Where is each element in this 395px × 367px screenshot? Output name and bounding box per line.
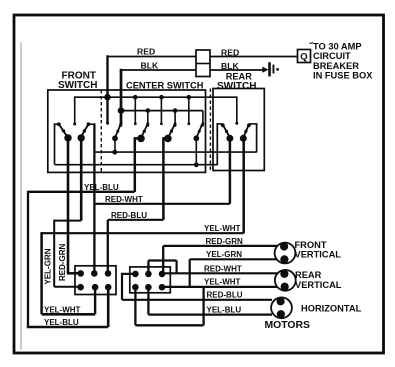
label FRONT SWITCH	[58, 70, 97, 91]
svg-text:YEL-BLU: YEL-BLU	[44, 318, 79, 327]
svg-text:SWITCH: SWITCH	[217, 81, 256, 92]
connector Q circuit breaker	[298, 50, 311, 63]
node bus A tap 2	[159, 95, 164, 100]
contact tip A2	[160, 122, 163, 125]
svg-text:BLK: BLK	[221, 61, 239, 71]
center switch pivot 1	[112, 135, 118, 141]
svg-text:RED-BLU: RED-BLU	[207, 291, 243, 300]
wire YEL-WHT left drop	[40, 232, 43, 314]
contact tip A1	[134, 122, 137, 125]
center switch blade 4	[197, 125, 202, 137]
front switch pivot 1	[64, 134, 71, 141]
wire YEL-GRN into connector	[54, 286, 80, 288]
svg-text:YEL-BLU: YEL-BLU	[84, 183, 119, 192]
wire center pivot 1 drop	[114, 138, 116, 152]
connector block J2	[130, 267, 171, 293]
pin J1-1	[77, 270, 84, 277]
wire rear left contact elbow	[217, 123, 223, 125]
center switch blade 3	[168, 125, 174, 137]
label TO 30 AMP CIRCUIT BREAKER IN FUSE BOX	[313, 42, 373, 81]
svg-text:RED-WHT: RED-WHT	[105, 195, 143, 204]
wire RED-GRN riser	[162, 246, 164, 274]
wire RED-GRN to front motor	[163, 245, 277, 247]
wire bus B (BLK)	[121, 110, 203, 112]
wire stub A3	[188, 97, 190, 124]
wire front left contact drop	[54, 123, 56, 164]
label REAR VERTICAL	[295, 270, 342, 290]
wire center pivot 4 drop	[195, 138, 197, 165]
wire YEL-WHT long run	[42, 232, 244, 234]
center switch blade 1	[115, 125, 120, 137]
rear switch left contact	[221, 123, 225, 127]
svg-text:VERTICAL: VERTICAL	[295, 280, 342, 290]
svg-text:RED-WHT: RED-WHT	[204, 264, 242, 273]
motor M1 front vertical	[275, 242, 296, 263]
wire bus A (RED feed)	[75, 96, 237, 98]
front switch right contact	[87, 122, 91, 126]
center switch pivot 3	[164, 135, 172, 143]
wire center pivot 3 drop	[162, 137, 165, 220]
pin J1-5	[92, 284, 99, 291]
svg-text:YEL-WHT: YEL-WHT	[204, 277, 241, 286]
wire YEL-GRN drop	[53, 220, 55, 287]
node bus A tap 3	[187, 95, 192, 100]
svg-text:SWITCH: SWITCH	[58, 80, 97, 91]
wire rear pivot 2 drop	[242, 138, 245, 233]
wire stub A2	[160, 97, 162, 124]
center switch contact 4	[201, 124, 204, 127]
wire J2 jumper right riser	[176, 261, 178, 274]
wire bus D (ground tie)	[55, 164, 218, 166]
wire BLK ground horizontal	[121, 69, 264, 71]
inner faint border line	[20, 42, 22, 350]
contact tip B3	[202, 122, 205, 125]
wire center pivot 3 elbow	[163, 137, 168, 140]
contact tip front centre	[73, 123, 76, 126]
contact tip rear centre	[235, 122, 238, 125]
wire stub B2	[174, 111, 176, 124]
rear switch pivot 1	[226, 135, 233, 142]
wire RED-BLU to horizontal motor	[122, 299, 272, 301]
center switch pivot 4	[193, 135, 199, 141]
node BLK junction	[118, 107, 125, 114]
wire YEL-BLU bottom run	[27, 326, 108, 329]
wire bus C (contacts tie)	[94, 151, 256, 153]
pin J1-4	[77, 284, 84, 291]
wire J2 jumper left riser	[147, 261, 149, 274]
wire J2 pin4 riser	[202, 287, 204, 325]
contact tip A3	[187, 122, 190, 125]
center switch contact 2	[146, 124, 149, 127]
wire bus A rear drop	[236, 96, 238, 123]
wire YEL-WHT bottom run	[42, 313, 96, 316]
svg-text:TO 30 AMP: TO 30 AMP	[313, 42, 362, 52]
pin J2-3	[159, 271, 166, 278]
wire YEL-WHT to rear motor	[162, 286, 277, 288]
center switch contact 3	[173, 124, 176, 127]
svg-text:MOTORS: MOTORS	[265, 320, 310, 331]
front switch blade 2	[81, 125, 88, 137]
svg-text:YEL-GRN: YEL-GRN	[43, 248, 52, 284]
center switch contact 1	[119, 124, 122, 127]
pin J2-2	[145, 271, 152, 278]
pin J2-1	[132, 271, 139, 278]
wire center pivot 2 drop	[134, 137, 137, 192]
wire RED-BLU riser to connector	[107, 220, 109, 274]
pin J1-3	[105, 270, 112, 277]
svg-text:REAR: REAR	[295, 270, 322, 280]
connector block J1	[75, 266, 116, 295]
wire YEL-BLU riser to connector	[107, 287, 110, 327]
svg-text:VERTICAL: VERTICAL	[295, 249, 342, 259]
connector C1	[196, 50, 210, 77]
wire front right contact drop	[93, 123, 95, 273]
ground	[262, 62, 279, 76]
front switch pivot 2	[78, 134, 85, 141]
wire front left contact elbow	[55, 123, 59, 125]
motor M3 horizontal	[271, 297, 292, 318]
wire RED-WHT to rear motor	[162, 272, 277, 274]
svg-text:CIRCUIT: CIRCUIT	[313, 51, 351, 61]
wire J2 pin4 drop	[134, 287, 136, 325]
pin J2-6	[159, 284, 166, 291]
wire stub B1	[147, 111, 149, 124]
wire YEL-GRN to front motor	[190, 258, 277, 260]
wire RED-BLU upper run	[108, 219, 164, 221]
svg-text:RED-GRN: RED-GRN	[58, 243, 67, 281]
svg-text:RED-BLU: RED-BLU	[111, 211, 147, 220]
wire RED feed horizontal	[108, 56, 298, 58]
motor M2 rear vertical	[275, 270, 296, 291]
pin J2-5	[145, 284, 152, 291]
wire center pivot 2 elbow	[135, 137, 141, 140]
wire rear pivot 1 drop	[229, 138, 232, 204]
rear switch blade 1	[223, 126, 230, 138]
svg-text:YEL-GRN: YEL-GRN	[206, 250, 242, 259]
svg-text:YEL-WHT: YEL-WHT	[204, 224, 241, 233]
dashed separator center/rear	[209, 89, 211, 171]
node pivot1 to bus C	[112, 150, 117, 155]
contact tip RED stub	[106, 122, 109, 125]
wire front pivot 2 drop	[80, 138, 83, 221]
svg-text:IN FUSE BOX: IN FUSE BOX	[313, 71, 373, 81]
wire YEL-WHT riser to connector	[94, 287, 96, 314]
node RED junction	[104, 94, 111, 101]
center switch pivot 2	[137, 135, 145, 143]
wire J2 pin1 drop	[121, 273, 123, 300]
rear switch right contact	[247, 123, 251, 127]
wire rear left contact drop	[216, 123, 218, 165]
svg-text:RED-GRN: RED-GRN	[206, 237, 244, 246]
svg-text:RED: RED	[221, 47, 239, 57]
wire YEL-BLU left drop	[27, 191, 29, 327]
label FRONT VERTICAL	[295, 240, 342, 260]
svg-text:RED: RED	[137, 47, 155, 57]
pin J1-6	[105, 284, 112, 291]
wire YEL-GRN riser	[189, 259, 191, 287]
front switch blade 1	[59, 125, 67, 137]
svg-text:YEL-BLU: YEL-BLU	[207, 305, 242, 314]
contact tip BLK stub	[120, 122, 123, 125]
rear switch box	[213, 89, 264, 171]
svg-text:BREAKER: BREAKER	[313, 61, 359, 71]
rear switch blade 2	[243, 126, 248, 138]
wire rear right contact drop	[256, 123, 258, 152]
svg-text:HORIZONTAL: HORIZONTAL	[301, 303, 362, 313]
wire J2 jumper horizontal	[148, 259, 176, 261]
node bus A tap 1	[133, 95, 138, 100]
wire front right contact elbow	[88, 123, 94, 125]
wire J2 pin4 bottom run	[135, 324, 203, 326]
wire YEL-BLU to horizontal motor	[148, 313, 272, 315]
wire BLK vertical drop	[120, 69, 123, 124]
stray tick mark	[310, 42, 314, 45]
center switch blade 2	[141, 125, 147, 137]
front switch left contact	[57, 122, 61, 126]
wire bus B right drop	[202, 111, 204, 124]
pin J1-2	[91, 270, 98, 277]
svg-text:FRONT: FRONT	[295, 240, 327, 250]
svg-text:Q: Q	[300, 52, 307, 63]
svg-text:YEL-WHT: YEL-WHT	[44, 305, 81, 314]
wire bus A left drop to front switch	[74, 96, 76, 124]
wire J2 pin5 drop	[147, 287, 149, 314]
label REAR SWITCH	[217, 72, 256, 92]
wire RED-GRN elbow into connector	[67, 272, 81, 275]
node bus B tap 2	[173, 108, 178, 113]
dashed separator front/center	[100, 90, 102, 172]
front/center switch box	[48, 90, 206, 172]
wire RED-WHT run	[94, 203, 230, 205]
wire YEL-BLU upper run	[28, 191, 135, 193]
svg-text:CENTER SWITCH: CENTER SWITCH	[126, 81, 204, 91]
contact tip B1	[146, 122, 149, 125]
node pivot4 to bus D	[194, 162, 199, 167]
wire rear right contact elbow	[249, 123, 257, 125]
node bus B tap 1	[146, 108, 151, 113]
wire front pivot 2 jog	[54, 220, 81, 222]
wire RED-GRN vertical (front pivot 1)	[67, 138, 70, 273]
wire J2 pin1 elbow	[122, 273, 135, 275]
pin J2-4	[132, 284, 139, 291]
wire stub A1	[134, 97, 136, 124]
contact tip B2	[174, 122, 177, 125]
rear switch pivot 2	[240, 135, 247, 142]
svg-text:BLK: BLK	[141, 60, 159, 70]
wire RED vertical drop	[106, 55, 108, 123]
